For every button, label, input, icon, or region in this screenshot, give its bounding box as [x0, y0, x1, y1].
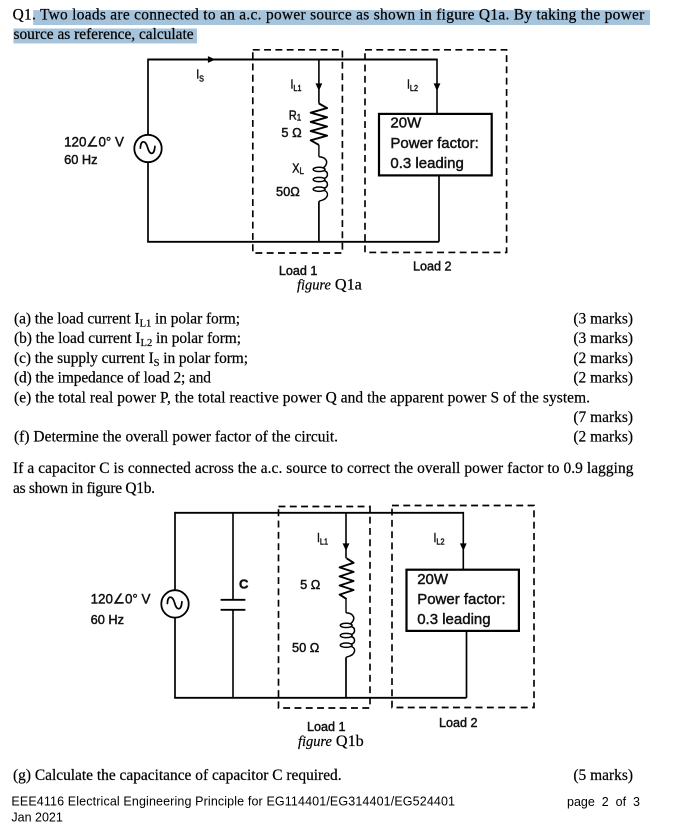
wire: inductor to bottom (Q1b) — [345, 658, 347, 698]
wire: load2 box to bottom (Q1b) — [466, 631, 468, 698]
wire: top horizontal (Q1a) — [148, 59, 437, 61]
svg-text:(c) the supply current IS in p: (c) the supply current IS in polar form; — [14, 350, 248, 369]
svg-text:IL2: IL2 — [407, 79, 418, 94]
wire: resistor-inductor connector (Q1a) — [318, 145, 320, 157]
wire: left vertical upper (Q1a) — [147, 59, 149, 135]
wire: inductor to bottom (Q1a) — [318, 202, 320, 242]
svg-text:60 Hz: 60 Hz — [64, 152, 97, 167]
resistor R1 5 ohm (Q1a) — [311, 104, 327, 145]
svg-text:C: C — [239, 577, 249, 592]
arrow for load current IL1 (Q1b) — [343, 543, 350, 551]
svg-text:(2 marks): (2 marks) — [573, 370, 633, 387]
svg-text:Load 2: Load 2 — [439, 716, 478, 730]
wire: left vertical upper (Q1b) — [174, 512, 176, 591]
wire: bottom horizontal (Q1b) — [174, 697, 466, 699]
wire: load1 branch drop (Q1a) — [318, 60, 320, 104]
ac source 120V 60Hz (Q1b) — [161, 590, 188, 617]
highlight band line 2 — [13, 29, 197, 44]
load 2 dashed boundary (Q1a) — [365, 50, 507, 253]
svg-text:(a) the load current IL1 in po: (a) the load current IL1 in polar form; — [14, 311, 240, 330]
svg-text:Power factor:: Power factor: — [417, 591, 505, 608]
svg-text:If a capacitor C is connected: If a capacitor C is connected across the… — [13, 460, 634, 477]
svg-text:EEE4116 Electrical Engineering: EEE4116 Electrical Engineering Principle… — [11, 795, 455, 809]
svg-text:60 Hz: 60 Hz — [91, 612, 124, 627]
load 2 box (Q1a) — [379, 114, 492, 175]
svg-text:Jan 2021: Jan 2021 — [11, 811, 62, 825]
wire: top horizontal (Q1b) — [175, 512, 463, 514]
svg-text:0.3 leading: 0.3 leading — [417, 611, 490, 628]
resistor 5 ohm (Q1b) — [340, 558, 354, 599]
figure Q1a — [64, 50, 507, 294]
load 2 box (Q1b) — [407, 570, 519, 631]
svg-text:120∠0° V: 120∠0° V — [64, 135, 124, 150]
svg-text:5 Ω: 5 Ω — [300, 577, 321, 592]
svg-text:(2 marks): (2 marks) — [573, 350, 633, 367]
svg-text:IL1: IL1 — [317, 532, 328, 547]
svg-text:Load 2: Load 2 — [413, 260, 452, 274]
wire: load2 branch drop (Q1b) — [462, 512, 464, 570]
svg-text:(g) Calculate the capacitance: (g) Calculate the capacitance of capacit… — [13, 767, 342, 784]
svg-text:(b) the load current IL2 in po: (b) the load current IL2 in polar form; — [14, 330, 241, 349]
svg-text:(7 marks): (7 marks) — [573, 409, 633, 426]
svg-text:source as reference, calculate: source as reference, calculate — [14, 26, 194, 43]
svg-text:IL2: IL2 — [434, 532, 445, 547]
wire: load2 branch drop (Q1a) — [436, 59, 438, 114]
load 2 dashed boundary (Q1b) — [392, 506, 534, 708]
inductor XL 50 ohm (Q1a) — [319, 157, 328, 202]
arrow for load current IL2 (Q1a) — [434, 83, 441, 91]
highlight band line 1 — [33, 10, 650, 25]
svg-text:(3 marks): (3 marks) — [573, 330, 633, 347]
svg-text:(5 marks): (5 marks) — [573, 767, 633, 784]
svg-text:50 Ω: 50 Ω — [292, 640, 320, 655]
svg-text:R1: R1 — [289, 107, 302, 122]
svg-text:(e) the total real power P, th: (e) the total real power P, the total re… — [14, 389, 590, 406]
ac source 120V 60Hz (Q1a) — [134, 135, 161, 162]
svg-text:(2 marks): (2 marks) — [573, 429, 633, 446]
load 1 dashed boundary (Q1b) — [279, 507, 371, 709]
svg-text:IL1: IL1 — [291, 79, 302, 94]
svg-text:20W: 20W — [417, 571, 449, 588]
wire: load1 branch drop (Q1b) — [345, 513, 347, 559]
svg-text:(3 marks): (3 marks) — [573, 311, 633, 328]
svg-text:(f) Determine the overall powe: (f) Determine the overall power factor o… — [14, 429, 338, 446]
svg-text:Load 1: Load 1 — [279, 264, 318, 278]
svg-text:Power factor:: Power factor: — [390, 135, 478, 152]
svg-text:figure Q1a: figure Q1a — [297, 275, 362, 293]
wire: left vertical lower (Q1a) — [147, 162, 149, 242]
svg-text:IS: IS — [196, 69, 204, 84]
wire: resistor-inductor connector (Q1b) — [345, 599, 347, 613]
svg-text:(d) the impedance of load 2; a: (d) the impedance of load 2; and — [14, 370, 211, 387]
capacitor branch upper wire (Q1b) — [232, 513, 234, 600]
svg-text:50Ω: 50Ω — [276, 184, 300, 199]
wire: left vertical lower (Q1b) — [174, 617, 176, 697]
arrow for load current IL1 (Q1a) — [316, 83, 323, 91]
capacitor C plates (Q1b) — [221, 599, 246, 601]
wire: bottom horizontal (Q1a) — [147, 241, 439, 243]
svg-text:Q1. Two loads are connected to: Q1. Two loads are connected to an a.c. p… — [13, 7, 645, 24]
wire: load2 box to bottom (Q1a) — [438, 175, 440, 241]
capacitor branch lower wire (Q1b) — [232, 610, 234, 698]
load 1 dashed boundary (Q1a) — [253, 50, 343, 253]
svg-text:0.3 leading: 0.3 leading — [390, 155, 463, 172]
inductor 50 ohm (Q1b) — [346, 613, 355, 658]
svg-text:20W: 20W — [390, 115, 422, 132]
arrow for supply current Is (Q1a) — [208, 56, 216, 63]
svg-text:XL: XL — [292, 160, 304, 176]
svg-text:120∠0° V: 120∠0° V — [91, 591, 151, 606]
figure Q1b — [91, 506, 534, 751]
svg-text:figure Q1b: figure Q1b — [298, 732, 364, 750]
svg-text:5 Ω: 5 Ω — [281, 125, 302, 140]
svg-text:page 2 of 3: page 2 of 3 — [567, 795, 640, 809]
svg-text:as shown in figure Q1b.: as shown in figure Q1b. — [13, 480, 155, 497]
arrow for load current IL2 (Q1b) — [460, 543, 467, 551]
